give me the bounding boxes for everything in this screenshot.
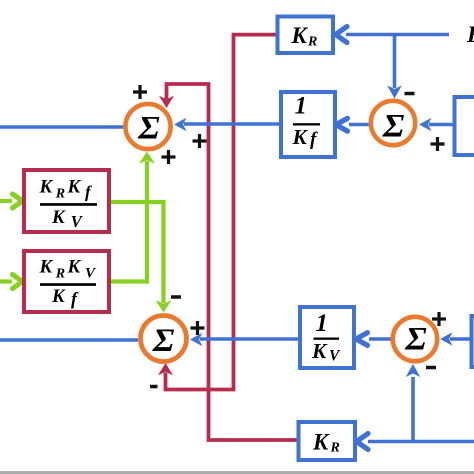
wire: S1 output to left edge	[0, 125, 124, 129]
wire: bottom input line into bottom K_R	[368, 440, 474, 444]
sign + at S1 top left	[133, 85, 147, 99]
wire: B1 output down into S2 top	[109, 202, 164, 303]
arrowhead into S1 top (red)	[159, 96, 174, 108]
wire: right box into S4	[450, 337, 471, 341]
arrowhead into K_R right side	[336, 27, 348, 43]
svg-text:K: K	[311, 339, 328, 363]
wire: B2 output up into S1 bottom	[109, 161, 147, 282]
svg-text:R: R	[330, 441, 340, 456]
block 1/K_V	[300, 307, 354, 368]
arrowhead into S1 right	[174, 118, 187, 131]
block B1: K_R K_f / K_V	[24, 170, 109, 232]
wire: red feedback from bottom K_R up to summer S1	[167, 84, 300, 440]
summer S4	[393, 317, 437, 361]
block 1/K_f	[281, 92, 335, 157]
arrowhead into S2 bottom (red)	[158, 363, 173, 375]
arrowhead into B1 left	[13, 194, 23, 208]
block K_R bottom	[299, 422, 356, 460]
arrowhead into S2 right	[190, 333, 203, 346]
wire: S4 output into 1/K_V	[369, 337, 391, 341]
block partial right bottom	[472, 316, 474, 367]
svg-text:K: K	[466, 22, 474, 47]
sign - below S2	[150, 385, 158, 389]
svg-text:R: R	[55, 187, 65, 202]
block B2: K_R K_V / K_f	[24, 251, 109, 312]
arrowhead into B2 left	[13, 275, 23, 289]
svg-text:K: K	[67, 257, 82, 278]
sign + at S1 bottom right	[162, 150, 176, 164]
svg-text:K: K	[312, 430, 330, 455]
summer S1	[125, 104, 170, 149]
sign - above S2	[171, 295, 181, 299]
svg-text:K: K	[39, 257, 54, 278]
svg-text:K: K	[39, 177, 54, 198]
svg-text:Σ: Σ	[382, 109, 405, 145]
summer S2	[141, 316, 187, 362]
svg-text:K: K	[292, 125, 309, 149]
wire: red feedback from top K_R down to summer S2	[166, 35, 278, 390]
svg-text:R: R	[307, 35, 317, 50]
wire: green input into box B1	[0, 199, 12, 203]
arrowhead into bottom K_R right side	[357, 434, 369, 450]
svg-text:K: K	[291, 23, 309, 48]
svg-text:1: 1	[315, 310, 328, 337]
svg-text:Σ: Σ	[137, 111, 160, 147]
arrowhead into S4 bottom	[406, 364, 420, 377]
sign - at S3 top	[405, 92, 415, 96]
wire: 1/K_f output into S1	[184, 122, 281, 126]
svg-text:K: K	[51, 286, 66, 307]
sign - at S4 bottom	[426, 366, 436, 370]
wire: right box into S3	[429, 123, 455, 127]
svg-text:R: R	[55, 267, 65, 282]
sign + at S4 right top	[432, 312, 446, 326]
sign + at S2 right	[191, 321, 205, 335]
block K_R top	[278, 17, 334, 54]
svg-text:V: V	[329, 347, 341, 364]
wire: branch up into summer S4	[411, 377, 415, 442]
svg-text:K: K	[67, 177, 82, 198]
summer S3	[371, 101, 415, 145]
sign + at S3 right	[431, 137, 445, 151]
arrowhead into S1 bottom (green)	[139, 152, 155, 164]
svg-text:Σ: Σ	[404, 322, 427, 358]
arrowhead into S2 top (green)	[156, 300, 172, 312]
wire: branch down into summer S3	[393, 35, 397, 89]
figure bottom border (grey)	[0, 471, 474, 474]
wire: top input line into K_R	[346, 33, 449, 37]
arrowhead into 1/K_f right	[336, 118, 348, 131]
svg-text:K: K	[51, 207, 66, 228]
sign + at S1 right	[193, 134, 207, 148]
wire: 1/K_V output into S2	[200, 337, 300, 341]
svg-text:1: 1	[294, 93, 307, 120]
arrowhead into S3 right	[419, 118, 432, 131]
block partial right top	[455, 97, 474, 155]
arrowhead into S4 right	[440, 332, 453, 345]
wire: S2 output to left edge	[0, 338, 138, 342]
wire: green input into box B2	[0, 279, 12, 283]
wire: S3 output into 1/K_f	[349, 123, 369, 127]
arrowhead into S3 top	[387, 86, 401, 99]
arrowhead into 1/K_V right	[356, 333, 368, 346]
svg-text:Σ: Σ	[152, 323, 175, 359]
